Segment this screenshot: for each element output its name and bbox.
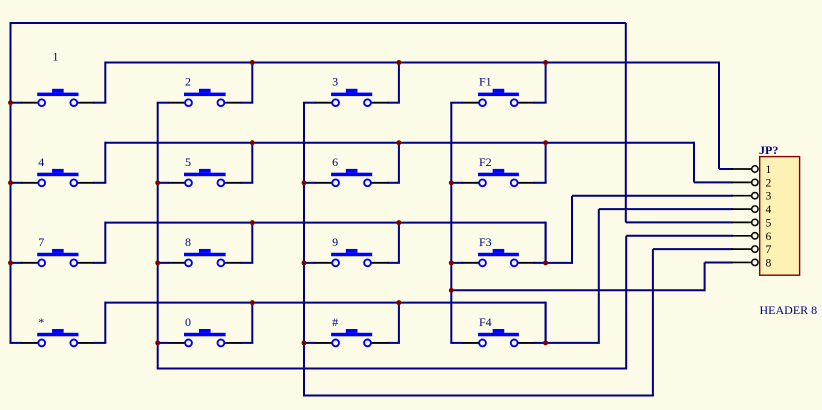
- svg-text:5: 5: [185, 155, 191, 169]
- svg-text:5: 5: [766, 216, 772, 229]
- svg-text:4: 4: [766, 203, 772, 216]
- svg-text:6: 6: [332, 155, 338, 169]
- svg-text:2: 2: [766, 176, 772, 189]
- svg-text:*: *: [38, 315, 44, 329]
- svg-text:0: 0: [185, 315, 191, 329]
- svg-text:7: 7: [38, 235, 44, 249]
- svg-text:1: 1: [53, 50, 59, 64]
- svg-text:JP?: JP?: [759, 143, 778, 157]
- svg-text:6: 6: [766, 230, 772, 243]
- svg-text:F3: F3: [479, 235, 492, 249]
- svg-text:HEADER 8: HEADER 8: [760, 303, 818, 317]
- svg-text:1: 1: [766, 163, 772, 176]
- svg-text:F4: F4: [479, 315, 492, 329]
- svg-text:#: #: [332, 315, 338, 329]
- svg-text:8: 8: [185, 235, 191, 249]
- svg-text:8: 8: [766, 256, 772, 269]
- svg-text:3: 3: [332, 75, 338, 89]
- svg-text:7: 7: [766, 243, 772, 256]
- svg-text:2: 2: [185, 75, 191, 89]
- svg-text:F2: F2: [479, 155, 492, 169]
- svg-text:9: 9: [332, 235, 338, 249]
- svg-text:3: 3: [766, 190, 772, 203]
- svg-text:F1: F1: [479, 75, 492, 89]
- svg-text:4: 4: [38, 155, 44, 169]
